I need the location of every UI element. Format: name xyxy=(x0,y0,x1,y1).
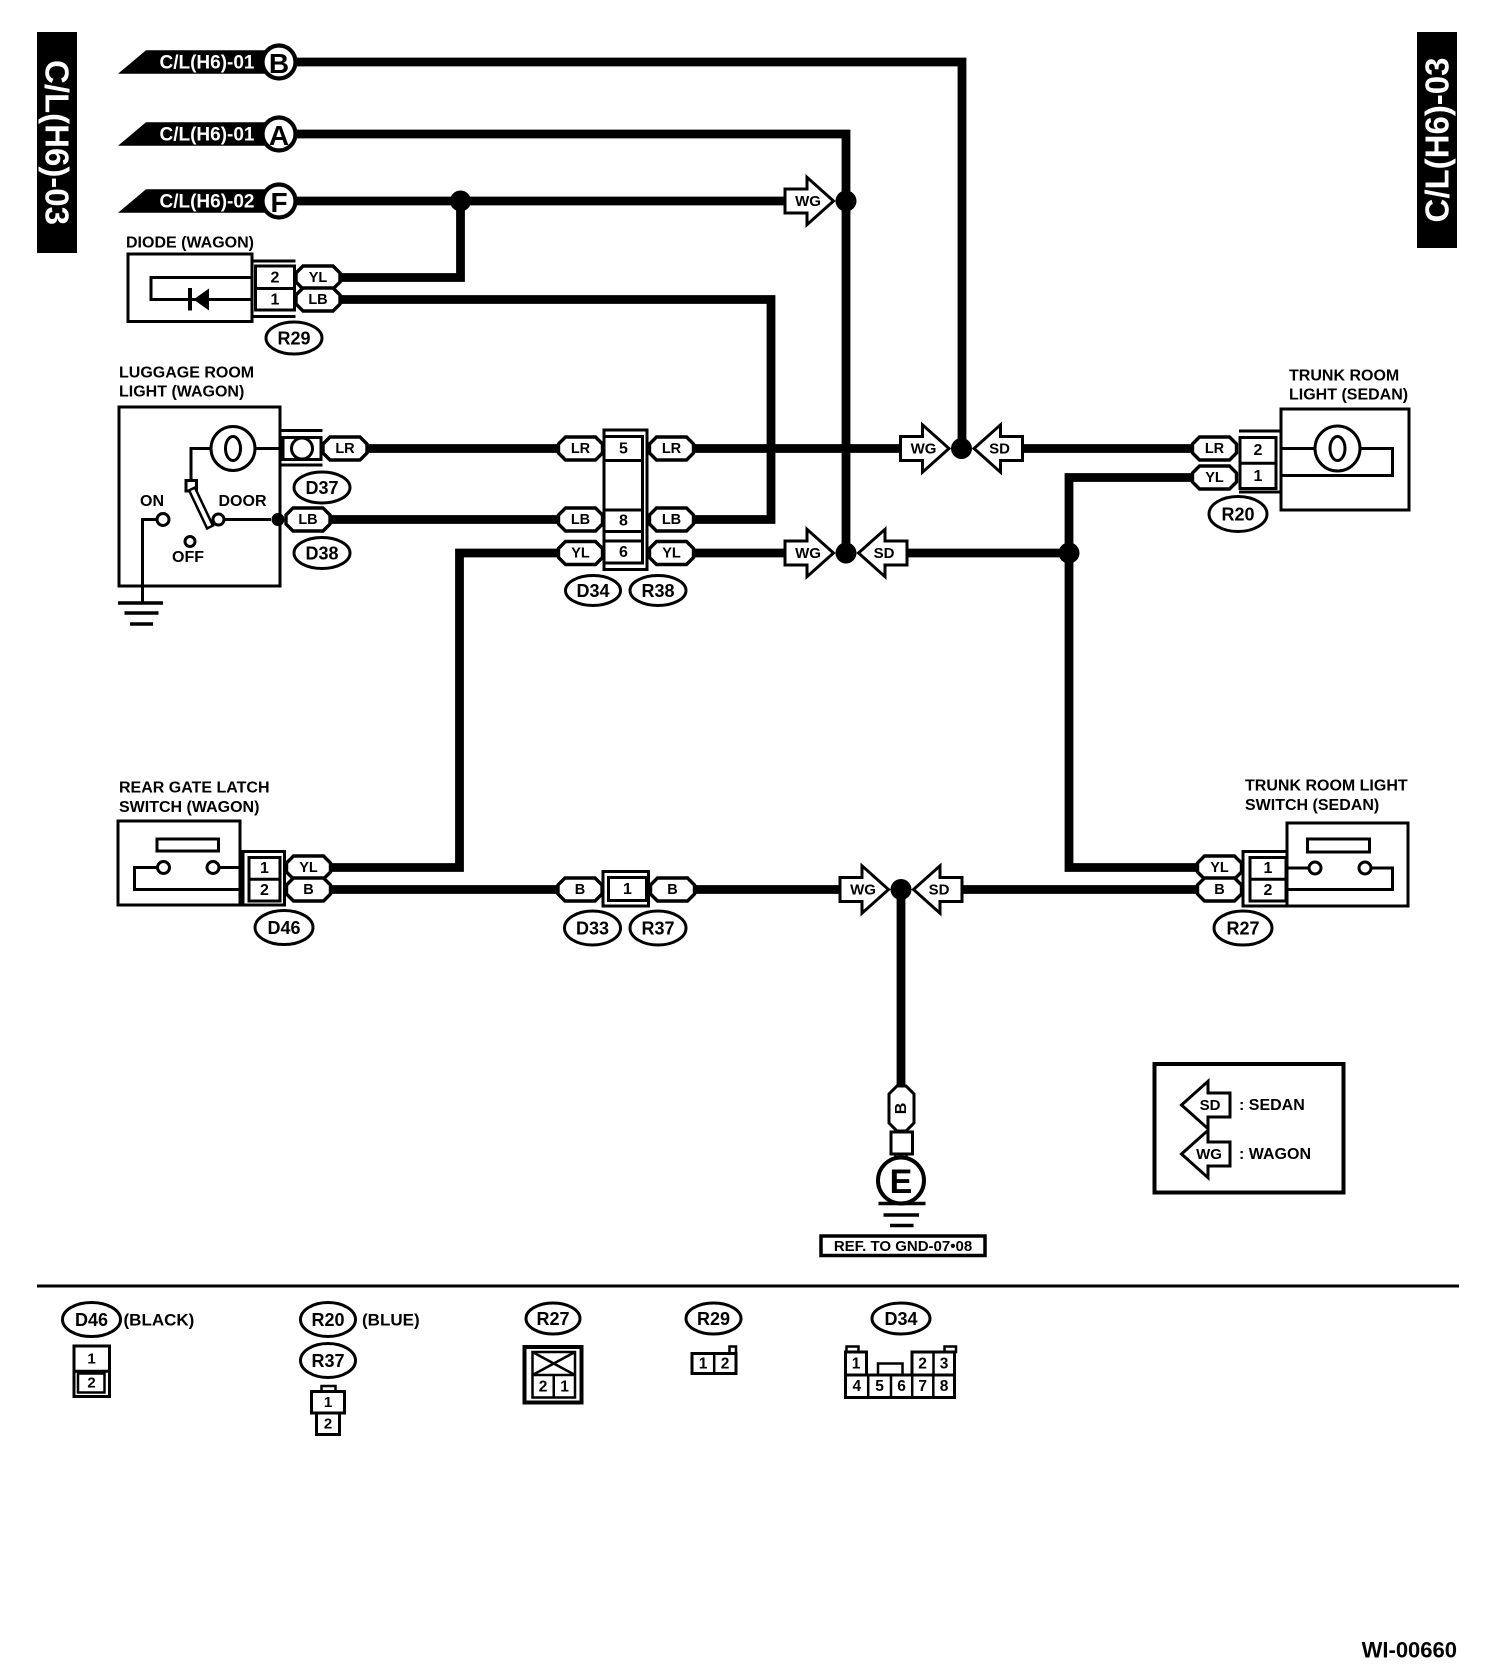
connector arrow WG (wagon) pair 2 YL net xyxy=(785,529,834,576)
svg-text:DOOR: DOOR xyxy=(219,493,267,510)
node junction YL sedan net xyxy=(1059,543,1080,564)
connector flag C/L(H6)-01 pin A xyxy=(118,118,296,152)
svg-text:2: 2 xyxy=(918,1355,927,1372)
svg-text:D33: D33 xyxy=(576,919,609,939)
connector label R27 xyxy=(526,1303,580,1334)
svg-text:LUGGAGE ROOM: LUGGAGE ROOM xyxy=(119,365,254,382)
wire net A: C/L(H6)-01 A down to WG/SD junction 2 xyxy=(296,134,847,553)
svg-text:8: 8 xyxy=(940,1378,949,1395)
svg-text:C/L(H6)-03: C/L(H6)-03 xyxy=(39,60,76,225)
terminal tag YL R38 pin 6 right xyxy=(650,542,694,565)
terminal tag LB diode pin 1 xyxy=(296,288,340,311)
svg-text:R29: R29 xyxy=(277,329,310,349)
connector view D34 xyxy=(846,1347,957,1398)
svg-text:(BLACK): (BLACK) xyxy=(124,1311,195,1330)
ground terminal legs xyxy=(896,1154,907,1160)
terminal tag LR D34 pin 5 left xyxy=(559,437,603,460)
legend box xyxy=(1155,1064,1344,1193)
connector arrow SD (sedan) pair 1 LR net xyxy=(974,425,1023,472)
svg-text:DIODE (WAGON): DIODE (WAGON) xyxy=(126,235,254,252)
svg-text:LR: LR xyxy=(571,441,591,457)
wire pin 1 to contact xyxy=(1287,867,1309,870)
connector block D33/R37 pin 1 xyxy=(603,872,649,907)
svg-text:YL: YL xyxy=(571,546,590,562)
switch contact left xyxy=(158,862,170,874)
terminal tag B rear gate latch pin 2 xyxy=(287,878,331,901)
wire YL: R38 pin 6 to WG arrow pair 2 xyxy=(694,549,788,558)
wire YL: node F to diode pin 2 xyxy=(340,201,461,278)
svg-text:R27: R27 xyxy=(536,1309,569,1329)
svg-text:YL: YL xyxy=(309,270,328,286)
ground symbol luggage room light xyxy=(118,603,163,624)
svg-text:6: 6 xyxy=(619,544,628,561)
svg-text:1: 1 xyxy=(324,1394,332,1411)
connector label R38 xyxy=(630,576,686,606)
svg-text:WG: WG xyxy=(795,545,821,562)
wire LB: diode pin 1 to connector R38 pin 8 xyxy=(340,300,771,520)
terminal tag YL diode pin 2 xyxy=(296,266,340,289)
svg-text:WI-00660: WI-00660 xyxy=(1362,1638,1457,1663)
trunk room light switch label xyxy=(1245,778,1408,815)
switch contact OFF xyxy=(185,537,195,547)
wire LB: luggage room light switch to D34 pin 8 xyxy=(330,515,559,524)
svg-text:SD: SD xyxy=(989,441,1010,458)
terminal tag YL D34 pin 6 left xyxy=(559,542,603,565)
rear gate latch switch label xyxy=(119,780,270,817)
svg-text:2: 2 xyxy=(721,1355,730,1372)
svg-text:SWITCH (WAGON): SWITCH (WAGON) xyxy=(119,799,259,816)
diode component box xyxy=(128,254,252,322)
node junction pair 3 xyxy=(891,879,912,900)
connector flag C/L(H6)-02 pin F xyxy=(118,185,296,219)
terminal tag YL trunk room light switch pin 1 xyxy=(1198,856,1242,879)
svg-text:C/L(H6)-01: C/L(H6)-01 xyxy=(159,53,254,74)
switch contact ON xyxy=(157,514,169,526)
connector R20 housing pins 2/1 xyxy=(1239,431,1280,492)
connector label D37 xyxy=(294,472,350,503)
connector label R20 xyxy=(1209,497,1267,532)
terminal capsule B ground lead xyxy=(889,1086,914,1131)
svg-text:D38: D38 xyxy=(305,544,338,564)
svg-text:D34: D34 xyxy=(576,581,609,601)
legend arrow WG : WAGON xyxy=(1182,1130,1312,1177)
svg-text:WG: WG xyxy=(795,193,821,210)
wire B: junction 3 down to ground terminal E xyxy=(897,890,906,1087)
svg-text:YL: YL xyxy=(662,546,681,562)
page tag banner right C/L(H6)-03 xyxy=(1417,32,1457,248)
terminal tag B trunk room light switch pin 2 xyxy=(1198,878,1242,901)
switch contact right xyxy=(207,862,219,874)
svg-text:YL: YL xyxy=(1210,860,1229,876)
svg-text:R20: R20 xyxy=(311,1310,344,1330)
svg-text:LB: LB xyxy=(308,292,327,308)
svg-text:1: 1 xyxy=(1264,860,1273,877)
connector label D34 xyxy=(566,576,621,606)
reference note REF. TO GND-07-08 xyxy=(821,1236,985,1256)
svg-text:R20: R20 xyxy=(1221,505,1254,525)
switch lever xyxy=(189,488,213,529)
svg-text:D46: D46 xyxy=(267,918,300,938)
connector label D38 xyxy=(294,538,350,569)
lamp bulb luggage room light xyxy=(211,427,255,471)
connector D46 housing pins 1/2 xyxy=(243,852,285,906)
wire net F: C/L(H6)-02 F to WG arrow xyxy=(296,197,788,206)
svg-text:B: B xyxy=(667,882,677,898)
connector arrow SD (sedan) pair 3 B net xyxy=(914,866,963,913)
svg-text:R27: R27 xyxy=(1226,919,1259,939)
wire: SD arrow pair 2 to junction node xyxy=(908,549,1069,558)
svg-text:: WAGON: : WAGON xyxy=(1239,1146,1311,1163)
svg-text:B: B xyxy=(269,48,289,79)
node junction pair 2 xyxy=(836,543,857,564)
connector label D46 xyxy=(255,911,313,945)
svg-text:YL: YL xyxy=(299,860,318,876)
trunk room light component box xyxy=(1281,409,1409,510)
ground symbol xyxy=(879,1204,926,1226)
wire B: SD arrow pair 3 to trunk room light switch pin 2 xyxy=(962,885,1200,894)
node junction F wire / diode YL drop xyxy=(450,191,471,212)
svg-text:C/L(H6)-02: C/L(H6)-02 xyxy=(159,192,254,213)
svg-text:YL: YL xyxy=(1205,470,1224,486)
svg-text:(BLUE): (BLUE) xyxy=(362,1311,420,1330)
svg-text:LIGHT (SEDAN): LIGHT (SEDAN) xyxy=(1289,387,1408,404)
connector label D34 xyxy=(872,1303,930,1334)
wire YL: D34 pin 6 down to rear gate latch switch pin 1 xyxy=(330,553,559,868)
wire B: R37 to WG arrow pair 3 xyxy=(694,885,841,894)
connector arrow WG (wagon) on net F xyxy=(785,177,834,224)
svg-text:2: 2 xyxy=(260,882,269,899)
svg-text:B: B xyxy=(893,1103,910,1115)
connector view R20/R37 xyxy=(312,1386,345,1435)
svg-text:OFF: OFF xyxy=(172,549,204,566)
svg-text:D46: D46 xyxy=(75,1310,108,1330)
connector label R37 xyxy=(301,1344,356,1378)
connector R27 housing pins 1/2 xyxy=(1243,852,1287,907)
lamp bulb trunk room light xyxy=(1315,426,1360,471)
connector label D46 xyxy=(63,1303,121,1337)
wire ON contact to ground xyxy=(143,520,158,604)
trunk room light switch actuator xyxy=(1308,839,1370,852)
connector label R27 xyxy=(1214,911,1272,945)
svg-text:SD: SD xyxy=(1200,1097,1221,1114)
luggage room light label xyxy=(119,365,254,401)
svg-text:REF. TO GND-07•08: REF. TO GND-07•08 xyxy=(834,1238,972,1255)
svg-text:ON: ON xyxy=(140,493,164,510)
svg-text:6: 6 xyxy=(897,1378,906,1395)
svg-text:3: 3 xyxy=(940,1355,949,1372)
luggage room light component box xyxy=(119,407,280,586)
svg-text:1: 1 xyxy=(699,1355,708,1372)
svg-text:R38: R38 xyxy=(641,581,674,601)
svg-text:8: 8 xyxy=(619,513,628,530)
connector view R29 xyxy=(692,1347,736,1374)
svg-text:A: A xyxy=(269,120,289,151)
wire contact to pin 1 xyxy=(219,866,240,869)
node junction LB terminal xyxy=(272,513,285,526)
wire B: rear gate latch switch pin 2 to D33 xyxy=(330,885,559,894)
svg-text:4: 4 xyxy=(852,1378,861,1395)
connector label R37 xyxy=(630,911,686,945)
wire diode internal xyxy=(151,278,252,300)
connector label R20 xyxy=(301,1303,356,1337)
svg-text:R37: R37 xyxy=(311,1351,344,1371)
svg-text:1: 1 xyxy=(1254,468,1263,485)
svg-text:5: 5 xyxy=(875,1378,884,1395)
connector arrow WG (wagon) pair 1 LR net xyxy=(901,425,950,472)
diode D1 symbol xyxy=(190,288,209,311)
svg-text:REAR GATE LATCH: REAR GATE LATCH xyxy=(119,780,270,797)
svg-text:WG: WG xyxy=(850,882,876,899)
wire DOOR contact to LB terminal xyxy=(224,518,271,521)
ground point E xyxy=(878,1158,924,1204)
svg-text:LB: LB xyxy=(662,512,681,528)
wire LR: SD arrow pair 1 to trunk room light pin 2 xyxy=(1023,444,1199,453)
ground terminal body xyxy=(891,1132,913,1154)
connector label D33 xyxy=(565,911,621,945)
terminal tag LB D34 pin 8 left xyxy=(559,508,603,531)
terminal tag YL trunk room light pin 1 xyxy=(1193,466,1237,489)
connector block D34/R38 pins 5,8,6 xyxy=(604,430,647,570)
svg-text:LB: LB xyxy=(571,512,590,528)
wire contact to pin 2 xyxy=(1287,868,1393,890)
wire YL: trunk room light pin 1 down to trunk room light switch pin 1 xyxy=(1069,478,1200,868)
svg-text:2: 2 xyxy=(1264,882,1273,899)
svg-text:2: 2 xyxy=(87,1375,95,1392)
node junction pair 1 xyxy=(951,438,972,459)
svg-text:C/L(H6)-01: C/L(H6)-01 xyxy=(159,125,254,146)
connector R29 housing pins 2/1 xyxy=(253,261,296,317)
svg-text:1: 1 xyxy=(271,292,280,309)
terminal housing LR luggage room light xyxy=(280,431,323,466)
svg-text:2: 2 xyxy=(1254,442,1263,459)
svg-text:WG: WG xyxy=(911,441,937,458)
separator line xyxy=(37,1285,1459,1288)
svg-text:2: 2 xyxy=(271,269,280,286)
svg-text:D34: D34 xyxy=(884,1309,917,1329)
svg-text:1: 1 xyxy=(560,1378,569,1395)
terminal tag B D33 left xyxy=(558,878,602,901)
svg-text:F: F xyxy=(270,187,287,218)
switch pivot xyxy=(186,481,197,492)
switch contact right xyxy=(1359,862,1371,874)
svg-text:R29: R29 xyxy=(697,1309,730,1329)
connector view D46 xyxy=(74,1346,110,1397)
terminal tag B R37 right xyxy=(651,878,695,901)
svg-text:LR: LR xyxy=(662,441,682,457)
rear gate latch switch component box xyxy=(118,821,240,905)
terminal tag YL rear gate latch pin 1 xyxy=(287,856,331,879)
rear gate latch switch actuator xyxy=(157,839,219,851)
svg-text:WG: WG xyxy=(1196,1146,1222,1163)
svg-text:C/L(H6)-03: C/L(H6)-03 xyxy=(1419,57,1456,222)
wire contact to pin 2 xyxy=(135,868,241,890)
connector flag C/L(H6)-01 pin B xyxy=(118,46,296,80)
wire lamp to pin 1 xyxy=(1281,449,1393,476)
svg-text:LB: LB xyxy=(298,512,317,528)
wire net B: C/L(H6)-01 B to WG/SD junction 1 xyxy=(296,62,963,449)
svg-text:1: 1 xyxy=(260,860,269,877)
svg-text:B: B xyxy=(575,882,585,898)
connector arrow SD (sedan) pair 2 YL net xyxy=(859,529,908,576)
terminal tag LB R38 pin 8 right xyxy=(650,508,694,531)
terminal tag LR trunk room light pin 2 xyxy=(1193,437,1237,460)
svg-text:LR: LR xyxy=(335,441,355,457)
connector label R29 xyxy=(686,1303,741,1334)
connector view R27 xyxy=(525,1347,582,1403)
terminal tag LB luggage room light xyxy=(286,508,330,531)
svg-text:LIGHT (WAGON): LIGHT (WAGON) xyxy=(119,384,244,401)
svg-text:TRUNK ROOM: TRUNK ROOM xyxy=(1289,368,1399,385)
trunk room light switch component box xyxy=(1287,823,1408,906)
wire lamp left xyxy=(1281,447,1315,450)
connector arrow WG (wagon) pair 3 B net xyxy=(840,866,889,913)
svg-text:7: 7 xyxy=(918,1378,927,1395)
trunk room light label xyxy=(1289,368,1408,404)
svg-text:: SEDAN: : SEDAN xyxy=(1239,1097,1305,1114)
svg-text:E: E xyxy=(890,1163,913,1201)
legend arrow SD : SEDAN xyxy=(1182,1081,1305,1128)
connector label R29 xyxy=(266,322,322,354)
svg-text:2: 2 xyxy=(539,1378,548,1395)
svg-text:5: 5 xyxy=(619,440,628,457)
wire lamp to switch pivot xyxy=(191,449,211,481)
svg-text:1: 1 xyxy=(623,881,632,898)
svg-text:R37: R37 xyxy=(641,919,674,939)
terminal tag LR luggage room light xyxy=(323,437,367,460)
wire lamp to terminal xyxy=(255,447,280,450)
terminal tag LR R38 pin 5 right xyxy=(650,437,694,460)
switch contact DOOR xyxy=(213,514,224,525)
page tag banner left C/L(H6)-03 xyxy=(37,32,77,253)
svg-text:SD: SD xyxy=(929,882,950,899)
wire LR: luggage room light to D34 pin 5 xyxy=(366,444,561,453)
node junction A vertical / F WG arrow xyxy=(836,191,857,212)
wire LR: R38 pin 5 to WG arrow pair 1 xyxy=(694,444,901,453)
svg-text:TRUNK ROOM LIGHT: TRUNK ROOM LIGHT xyxy=(1245,778,1408,795)
svg-text:LR: LR xyxy=(1205,441,1225,457)
switch contact left xyxy=(1309,862,1321,874)
svg-text:B: B xyxy=(1214,882,1224,898)
svg-text:1: 1 xyxy=(87,1350,95,1367)
svg-text:B: B xyxy=(303,882,313,898)
svg-text:D37: D37 xyxy=(305,478,338,498)
svg-text:1: 1 xyxy=(852,1355,861,1372)
svg-text:2: 2 xyxy=(324,1416,332,1433)
svg-text:SWITCH (SEDAN): SWITCH (SEDAN) xyxy=(1245,797,1379,814)
svg-text:SD: SD xyxy=(874,545,895,562)
